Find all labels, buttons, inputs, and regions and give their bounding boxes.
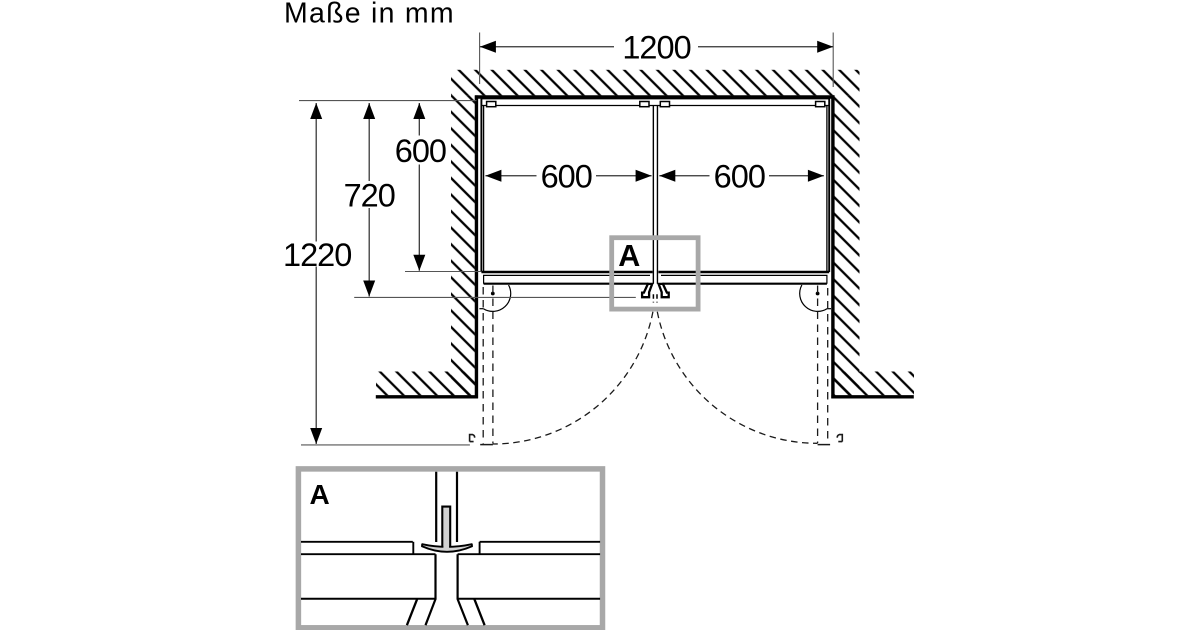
svg-text:600: 600 <box>714 159 765 195</box>
svg-text:A: A <box>618 239 640 273</box>
svg-text:1220: 1220 <box>283 237 351 273</box>
left pivot arc <box>483 285 510 311</box>
detail mullion left line <box>435 472 437 542</box>
door hinge block center-right <box>660 102 669 107</box>
wall inner face line right <box>831 95 834 398</box>
arrowhead 600 top <box>413 103 425 119</box>
svg-text:A: A <box>310 479 330 510</box>
center hinge bracket left boot <box>642 284 652 297</box>
arrowhead 600L right <box>636 170 652 182</box>
open door dashed line left outer <box>482 287 484 444</box>
fridge body outline <box>481 98 829 272</box>
detail center post left edge <box>426 554 436 625</box>
detail hinge dish <box>422 544 472 552</box>
wall hatching top band <box>451 70 860 96</box>
center mullion lines <box>653 106 657 284</box>
reference line 600 bottom <box>405 271 481 273</box>
wall right foot base line <box>831 395 913 398</box>
door swing dashed arc right <box>657 312 817 444</box>
svg-text:600: 600 <box>541 159 592 195</box>
svg-text:600: 600 <box>395 133 446 169</box>
door hinge block center-left <box>640 102 649 107</box>
right pivot arc <box>800 285 827 311</box>
center dashes below bracket <box>653 294 657 302</box>
left pivot arc end tick <box>479 308 483 310</box>
right pivot arc end tick <box>827 308 831 310</box>
fridge left inner line <box>483 106 485 272</box>
dimension line 720 vertical <box>368 103 370 297</box>
detail center post right edge <box>458 554 468 625</box>
detail step left <box>412 542 414 554</box>
arrowhead 600 bottom <box>413 255 425 271</box>
arrowhead 600R right <box>808 170 824 182</box>
door front band bottom line <box>484 283 827 285</box>
open door dashed line right inner <box>817 286 819 444</box>
arrowhead 600L left <box>485 170 501 182</box>
arrowhead 1220 bottom <box>310 428 322 444</box>
arrowhead 1200 left <box>480 41 496 53</box>
wall hatching left foot <box>376 372 475 396</box>
right door handle open <box>837 435 842 442</box>
extension line left for 1200 <box>479 33 481 85</box>
open door bottom edge right <box>818 444 831 446</box>
fridge body bottom thick line <box>481 271 829 274</box>
top reference line <box>299 100 477 102</box>
wall inner face line left <box>475 95 478 398</box>
center hinge bracket right boot <box>659 284 669 297</box>
dimension line 600 left door <box>485 175 651 177</box>
open door dashed line right outer <box>827 288 829 443</box>
door hinge block top-right <box>816 102 825 107</box>
wall hatching right strip <box>833 95 860 395</box>
detail door top band upper line <box>301 541 600 543</box>
svg-text:1200: 1200 <box>622 29 690 65</box>
dimension line 1220 vertical <box>315 103 317 444</box>
open door bottom edge left <box>480 444 493 446</box>
door front band <box>484 275 827 283</box>
door swing dashed arc left <box>493 312 653 444</box>
detail diagonal left outer <box>407 599 417 625</box>
arrowhead 1200 right <box>817 41 833 53</box>
svg-text:720: 720 <box>344 177 395 213</box>
reference line 720 bottom <box>354 296 636 298</box>
reference line 1220 bottom <box>301 444 470 446</box>
detail diagonal right outer <box>474 599 484 625</box>
detail bottom band line <box>301 598 600 600</box>
left door handle open <box>470 435 475 442</box>
right pivot dot <box>816 292 820 296</box>
left pivot dot <box>491 292 495 296</box>
detail mullion right line <box>456 472 458 542</box>
fridge right inner line <box>826 106 828 272</box>
wall hatching right foot <box>833 372 914 396</box>
extension line right for 1200 <box>832 33 834 88</box>
wall left foot base line <box>376 395 478 398</box>
detail hinge pin <box>443 508 449 549</box>
dimension line 1200 <box>480 46 833 48</box>
detail box frame <box>298 469 602 628</box>
arrowhead 720 top <box>363 103 375 119</box>
arrowhead 1220 top <box>310 103 322 119</box>
door hinge block top-left <box>487 102 496 107</box>
detail step right <box>479 542 481 554</box>
dimension line 600 right door <box>659 175 824 177</box>
arrowhead 720 bottom <box>363 281 375 297</box>
fridge top inner line <box>481 105 829 107</box>
arrowhead 600R left <box>659 170 675 182</box>
svg-text:Maße in mm: Maße in mm <box>284 0 455 30</box>
wall hatching left strip <box>451 95 475 395</box>
detail door top band lower line <box>301 553 600 555</box>
wall underside line <box>475 95 835 98</box>
open door dashed line left inner <box>492 286 494 444</box>
callout box A <box>612 238 698 309</box>
dimension line 600 vertical <box>418 103 420 271</box>
